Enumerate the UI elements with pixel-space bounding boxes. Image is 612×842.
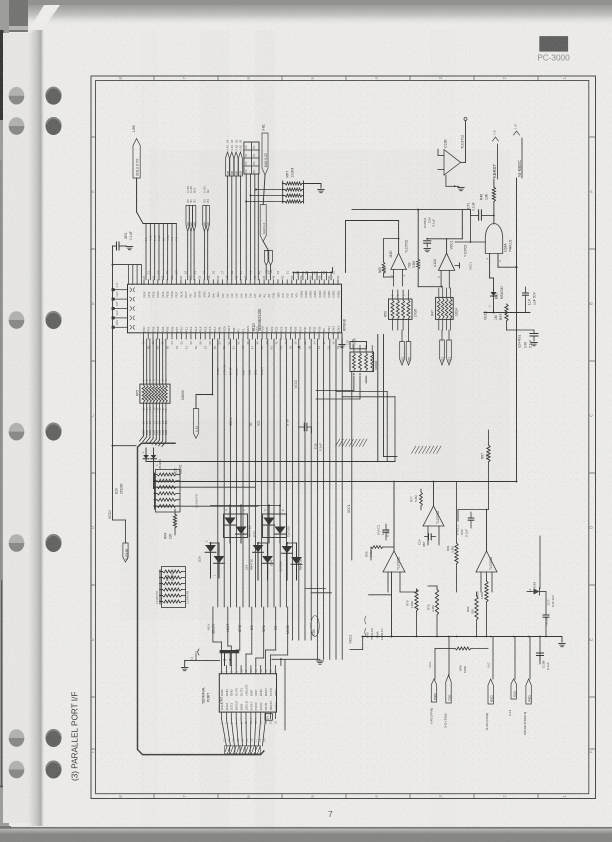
ground at connector left <box>182 667 188 669</box>
capacitor C04 0.1uF OVDD1 <box>423 217 447 247</box>
diode pair D26 <box>198 540 225 578</box>
gate-array IC U10 MSM6242 <box>128 284 342 333</box>
long wire RP22 to right B <box>154 505 258 507</box>
resistor R62 3.3M on bus drop <box>408 210 443 288</box>
resistor R46 1K <box>479 179 495 224</box>
wire NI-KBSC down to bus <box>515 178 517 482</box>
wire 25J200 to right net <box>146 459 395 489</box>
component GP-08 level box <box>350 339 367 349</box>
signal flag V-14 <box>508 636 517 716</box>
wire connector right rail <box>272 658 320 730</box>
ground at connector right rail <box>317 660 323 662</box>
net label KBRST with arrow <box>492 130 498 179</box>
bus junction dot right <box>516 481 518 483</box>
dual diode E20 25J200 <box>115 448 162 494</box>
resistor network RP47 12G4 <box>431 288 459 330</box>
wire RP22 bus down <box>154 489 156 510</box>
tall flag KA2.0-22 lower <box>260 205 266 242</box>
signal flag 1-B5 SOL2.0-TX <box>132 125 140 178</box>
wire VCC1 into gate <box>450 216 486 250</box>
diode matrix cross wires <box>211 506 297 544</box>
resistor network RP7 100K <box>282 168 304 203</box>
VCC1 pin stub of U12A <box>455 262 473 270</box>
ground lower right <box>559 637 565 647</box>
VCC0 rail vertical wire <box>112 246 142 520</box>
thick bus stub above connector <box>220 650 240 653</box>
op-amp U12A TLC3702 <box>433 210 468 288</box>
IC U10 top-row pin names <box>142 290 340 298</box>
lower bus wire <box>362 636 562 638</box>
ground under U13B <box>458 187 464 189</box>
connector CN3 TERMINAL PORT <box>202 674 277 712</box>
wire fan D-bus to IC top pins <box>144 224 178 280</box>
filter L1 BEND1 <box>185 649 220 667</box>
resistor network RP4 100KC <box>155 567 190 608</box>
wire bundle IC to RP5 <box>144 339 166 384</box>
gate U18A output and input wires <box>485 254 517 268</box>
vertical wires right group to connector <box>305 339 342 659</box>
horizontal wire pair to comparator drops <box>336 392 395 462</box>
resistor R87 13K <box>458 430 490 521</box>
resistor R97 1M <box>494 304 508 321</box>
junction dots lower bus <box>539 636 541 648</box>
CN3 note box 24C <box>265 714 272 721</box>
resistor R79 3.3M <box>427 586 439 637</box>
capacitor C14 68p <box>418 534 436 547</box>
resistor RPA 100K horizontal <box>440 647 488 673</box>
signal flags below RP47 <box>440 330 452 365</box>
bus join ticks group A <box>336 439 367 446</box>
VCC1 branch wire <box>347 372 352 561</box>
IC U10 ground bus on top-right pins <box>293 268 333 280</box>
net labels above connector <box>207 623 317 636</box>
capacitor SR1 0.1uF <box>113 231 133 250</box>
connector grid J2 (2x4 header) <box>244 142 259 280</box>
vertical wires data to diode matrix <box>218 339 311 640</box>
signal flag 2-W166 <box>113 520 129 562</box>
resistor R91 3.3M <box>446 482 458 593</box>
capacitor C30 0.1uF mid <box>299 423 323 451</box>
bus join ticks group B <box>412 446 441 453</box>
diode pair D24 RB471E <box>245 543 274 580</box>
data bus loop (left and bottom) <box>138 443 264 754</box>
resistor RR4 12K <box>164 509 177 539</box>
resistor R65 3.3M feedback <box>378 238 399 277</box>
long wire RP22 to right A <box>154 481 517 483</box>
capacitor C71 0.1uF <box>467 202 495 220</box>
model tab PC-3000 <box>537 36 570 62</box>
CN3 shield wires to feet <box>222 719 267 746</box>
long vertical wire net FD0 <box>377 335 379 462</box>
net label rows under RP5 <box>142 420 168 435</box>
wire KA to lower flag <box>263 175 265 205</box>
junction dots diode matrix <box>210 505 289 545</box>
CN3 bottom pin stubs and numbers <box>220 712 278 724</box>
CN3 top pin stubs and numbers <box>220 666 278 674</box>
electrolytic cap C17 1uF 22V <box>543 592 555 638</box>
net label NI-KBSC with arrow <box>514 124 523 178</box>
signal flag RXD <box>485 592 494 730</box>
resistor R77 5.6M feedback <box>410 489 423 510</box>
CN3 mounting feet hatched <box>225 746 261 754</box>
wire RP7 to header <box>256 189 283 191</box>
resistor R70 120K <box>400 589 418 637</box>
net label column mid <box>216 365 264 375</box>
oval around STB net label <box>311 616 319 637</box>
RP5 bottom stubs and labels <box>142 403 168 412</box>
ground symbol at IC right <box>339 318 347 347</box>
VCC1 rail and junctions <box>484 304 531 330</box>
bus joins from RP5 wires <box>140 412 166 447</box>
IC U10 top pin stubs and pin numbers <box>142 271 340 285</box>
signal flag 0-P2 PRN <box>429 649 440 725</box>
capacitor L14 1uF 50V <box>523 287 537 305</box>
resistor network RP50 17G8 <box>384 290 418 330</box>
staircase wires into connector pins <box>213 607 288 666</box>
capacitor C10 0.1uF <box>537 637 551 671</box>
wire jog below KA flag <box>263 241 268 250</box>
op-amp U11B TLC3702 <box>456 509 498 592</box>
capacitor C03 0.1uF <box>468 512 474 528</box>
wire from flag SOL to fan <box>137 178 177 224</box>
tall flag KA2.0-22 upper <box>262 124 269 175</box>
IC U10 left pin stubs <box>112 283 135 329</box>
comparator bus wire upper <box>352 209 470 216</box>
wire RP7 to header 2 <box>251 195 283 197</box>
signal flag DTRAA <box>193 339 213 438</box>
resistor R92 310K <box>466 592 478 637</box>
signal flags G9x group <box>186 186 210 280</box>
RP12 bottom bends to left <box>316 373 366 399</box>
diode pair D25 RB471E <box>279 543 303 580</box>
op-amp U13B TLC3702 <box>438 118 467 188</box>
ground for C61 <box>126 246 132 248</box>
resistor network RP12 100KB <box>346 338 378 372</box>
resistor R86 130K <box>476 572 489 637</box>
grouping braces R90 RMA <box>365 616 384 640</box>
capacitor C48 0.1uF with U24-RS1 <box>507 330 539 348</box>
wire connector left rail <box>224 653 232 665</box>
resistor R55 feedback zigzag <box>371 546 394 560</box>
diode E51 M5400D <box>488 262 504 313</box>
ground under C48 <box>531 342 537 344</box>
CN3 internal pin names bottom row <box>220 700 278 710</box>
IC U10 bottom-row pin names <box>142 325 340 332</box>
resistor network RP5 100K <box>136 384 186 403</box>
long vertical wire net FD1 <box>384 335 398 457</box>
IC U10 bottom pin stubs and pin numbers <box>142 333 341 350</box>
signal flags G1D2 G2D2 <box>264 250 272 279</box>
wire RP7 to header 3 <box>246 201 283 203</box>
signal flag X-D TXD <box>443 636 452 728</box>
signal flags below RP50 <box>400 330 411 365</box>
op-amp U11D TLC3702 <box>423 481 444 545</box>
CN3 internal pin names top row <box>220 684 278 696</box>
resistor network RP22 125K0 <box>153 465 198 512</box>
ground under C04 <box>424 248 430 250</box>
op-amp U13D TLC3702 <box>346 221 409 287</box>
net labels near lower flags <box>428 661 491 668</box>
signal flags KBC group <box>226 140 243 280</box>
zener diode D13 1PA4148 <box>527 536 546 595</box>
capacitor C92 0.1uF OVCC1 <box>377 524 390 540</box>
dual diode pack D21 RB471E (boxed) <box>224 506 257 544</box>
VCC1 label lower <box>349 634 364 649</box>
NOR gate U18A 74HC02 <box>485 224 512 254</box>
net labels SELIN INIT ERR group upper <box>229 346 300 426</box>
short wire RP22 row B <box>154 486 255 488</box>
ground for RP7 <box>304 184 325 193</box>
RP5 pin labels top <box>142 379 168 381</box>
dual diode pack D22 RB471E (boxed) <box>263 506 291 544</box>
signal flag PRDET <box>523 636 532 735</box>
IC upper-left feed stubs <box>129 265 142 285</box>
op-amp U11A TLC3702 <box>365 481 406 638</box>
